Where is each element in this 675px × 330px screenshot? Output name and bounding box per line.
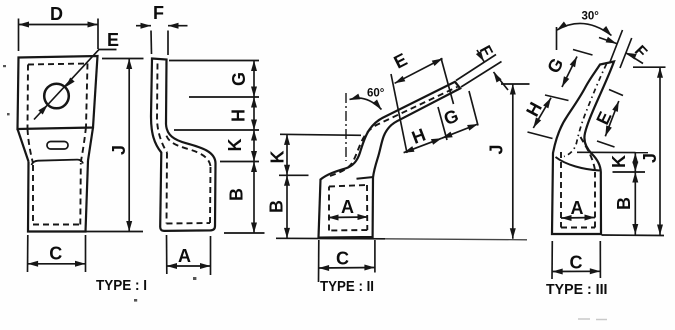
leader E (34, 50, 117, 120)
svg-text:TYPE : III: TYPE : III (546, 281, 608, 298)
chained dims G H K B (type I side) (169, 61, 265, 234)
dimension H (type II) (404, 138, 442, 153)
svg-text:G: G (229, 72, 249, 86)
svg-text:C: C (49, 243, 62, 263)
type II neck+strip dashed (330, 87, 458, 176)
barrel inner dashed (33, 163, 81, 225)
hole E (44, 84, 69, 109)
svg-text:K: K (609, 155, 629, 168)
dimension F (type III tip) (599, 30, 643, 68)
svg-text:J: J (109, 145, 129, 155)
svg-text:F: F (153, 3, 164, 23)
svg-text:E: E (592, 109, 615, 128)
svg-text:B: B (227, 188, 247, 201)
dimensions K B (type II) (276, 134, 385, 239)
side profile outline (151, 59, 216, 231)
type III strip centerline dashed (564, 64, 607, 157)
dimension E (type II) (395, 59, 443, 84)
dimensions K B (type III) (577, 152, 648, 234)
svg-text:B: B (614, 197, 634, 210)
slot (47, 142, 68, 150)
svg-text:30°: 30° (582, 11, 600, 23)
dimension J (type I) (86, 59, 144, 232)
svg-text:C: C (336, 249, 349, 269)
svg-text:H: H (229, 109, 249, 122)
svg-text:A: A (571, 198, 584, 218)
svg-text:A: A (341, 197, 354, 217)
svg-text:K: K (268, 151, 288, 164)
svg-text:B: B (267, 200, 287, 213)
perpendicular ticks (type II) (391, 58, 478, 153)
svg-text:G: G (543, 55, 567, 77)
svg-text:J: J (487, 144, 507, 154)
svg-text:G: G (441, 105, 461, 129)
type II fold line (357, 177, 374, 179)
type II profile outline (319, 82, 461, 238)
stray scan marks (3, 65, 196, 302)
dimension H (type III) (528, 98, 553, 139)
svg-text:D: D (50, 4, 63, 24)
svg-text:TYPE : II: TYPE : II (320, 278, 374, 295)
dimension A (type II) (328, 216, 368, 219)
svg-text:A: A (178, 246, 191, 266)
svg-text:K: K (225, 139, 245, 152)
dimension C (type III) (552, 241, 600, 279)
svg-text:E: E (107, 30, 119, 50)
30 deg annotation (556, 27, 558, 50)
transition dashed (28, 127, 87, 163)
dimension G (type II) (442, 124, 478, 138)
dimension F (type I side) (136, 26, 188, 55)
palm inner dashed (28, 64, 88, 129)
dimension A (type I side) (167, 235, 211, 275)
dimension J (type III) (602, 67, 666, 235)
60 deg annotation (345, 93, 347, 161)
svg-text:E: E (391, 49, 411, 72)
type III barrel inner dashed (561, 137, 595, 228)
palm outline (18, 56, 98, 129)
svg-text:J: J (640, 153, 660, 163)
dimension C (type I) (28, 235, 86, 272)
type III fold (556, 157, 600, 171)
svg-text:C: C (570, 253, 583, 273)
svg-text:TYPE : I: TYPE : I (96, 277, 147, 294)
transition outer (18, 128, 94, 162)
dimension A (type III) (561, 217, 595, 220)
type III profile outline (552, 62, 614, 235)
dimension F (type II tip) (456, 50, 508, 90)
dimension D (19, 19, 99, 52)
barrel outline (28, 161, 88, 232)
svg-text:60°: 60° (367, 88, 385, 100)
dimension G (type III) (545, 50, 593, 101)
svg-text:H: H (522, 99, 546, 120)
side inner dashed (157, 64, 211, 224)
fold line (32, 160, 84, 165)
type II barrel inner dashed (329, 185, 367, 231)
dimension C (type II) (319, 240, 375, 282)
dimension J (type II) (501, 84, 530, 239)
dimension E (type III) (597, 90, 623, 148)
